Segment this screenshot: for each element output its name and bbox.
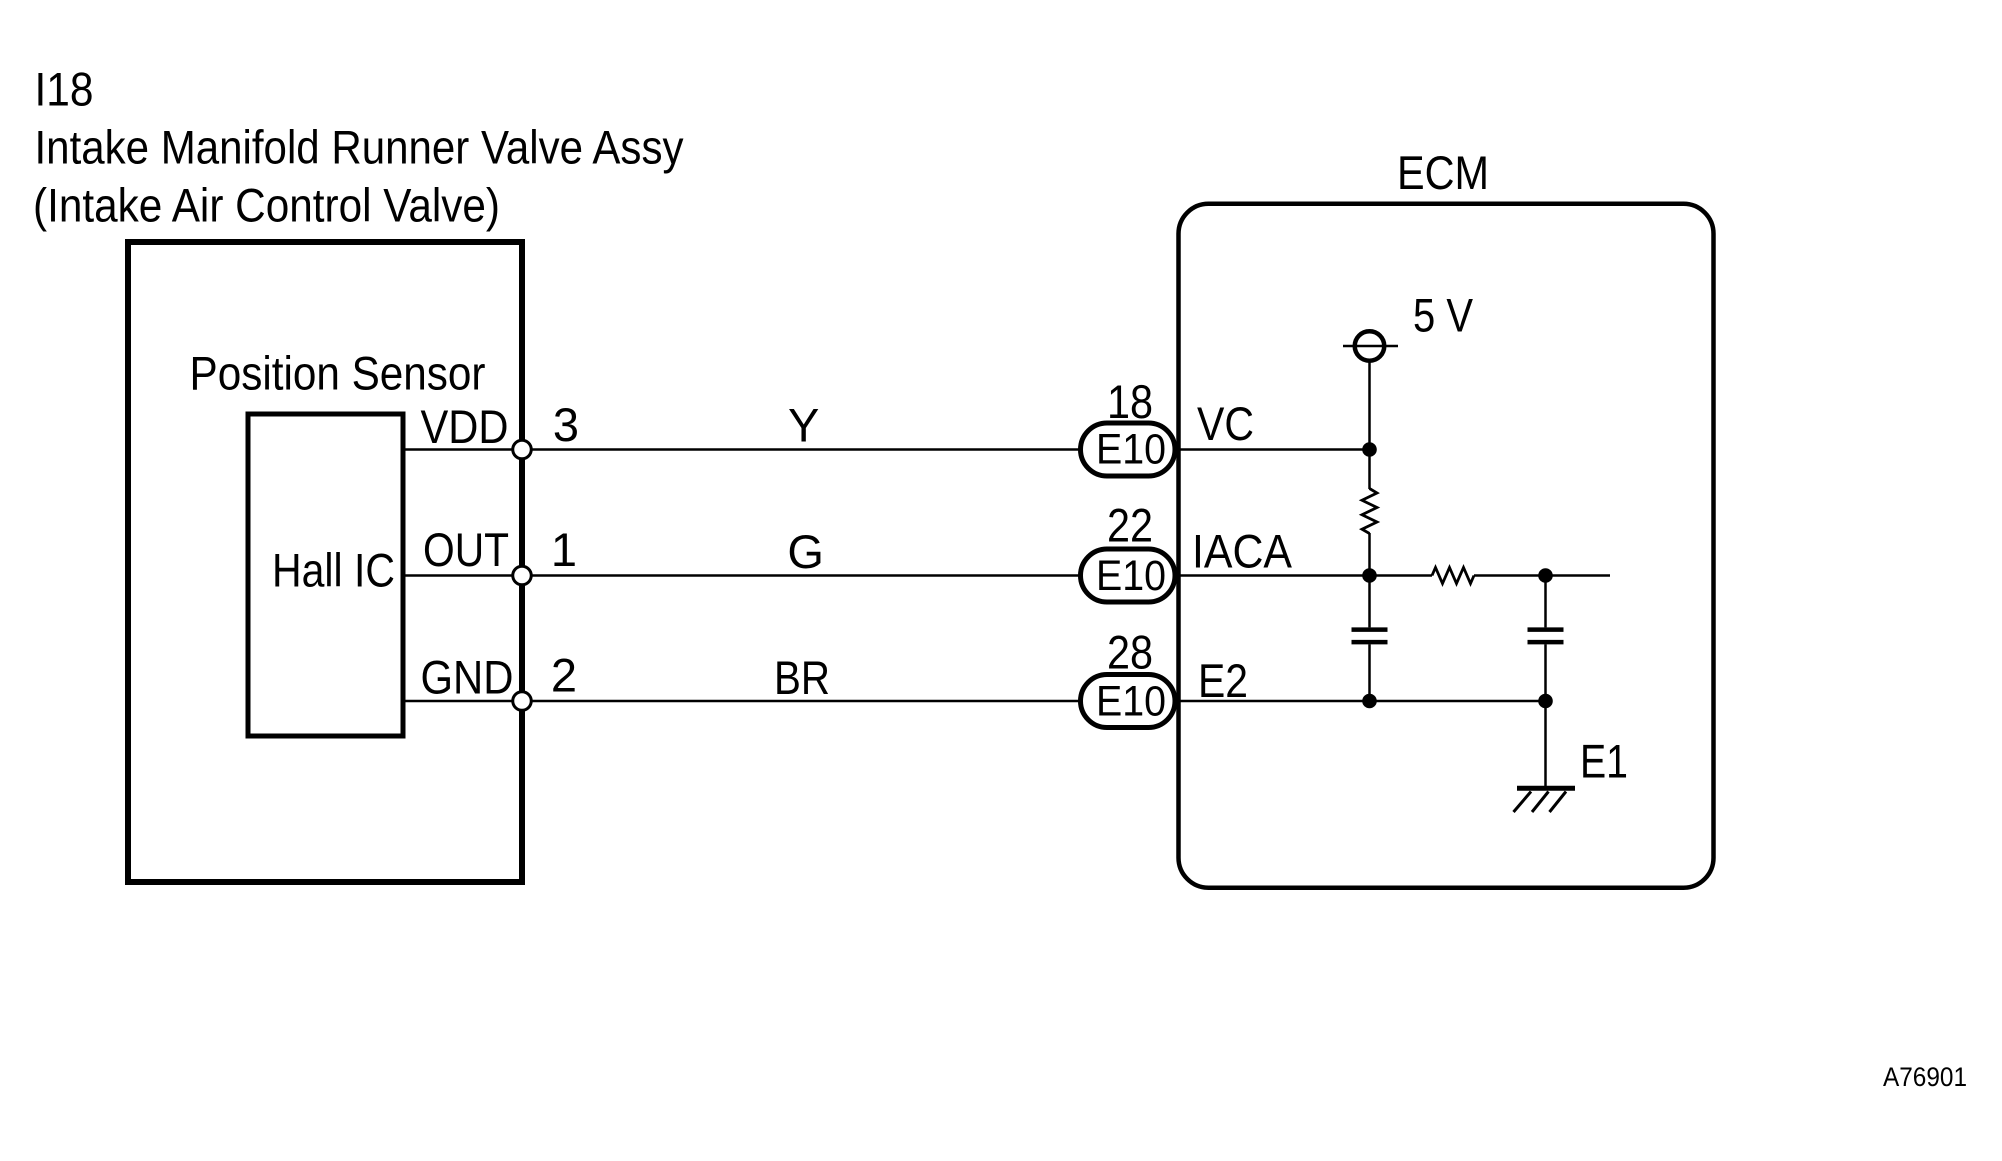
svg-text:18: 18 bbox=[1107, 375, 1153, 428]
ground symbol E1 bar bbox=[1517, 786, 1575, 791]
Hall IC box bbox=[248, 414, 403, 736]
connector oval E10 pin 28 bbox=[1081, 675, 1176, 728]
capacitor C2 plates bbox=[1528, 627, 1564, 632]
capacitor C2 top lead bbox=[1544, 576, 1547, 628]
junction E2 node right bbox=[1538, 694, 1553, 709]
svg-text:28: 28 bbox=[1107, 626, 1153, 679]
connector oval E10 pin 18 bbox=[1081, 423, 1176, 476]
resistor R2 (horizontal) bbox=[1432, 568, 1474, 584]
terminal circle pin 2 bbox=[513, 692, 532, 711]
power symbol 5V circle bbox=[1355, 331, 1385, 361]
wire E2 inside ECM bbox=[1178, 700, 1546, 703]
svg-text:E1: E1 bbox=[1580, 735, 1628, 788]
svg-text:GND: GND bbox=[421, 651, 514, 704]
svg-text:Position Sensor: Position Sensor bbox=[190, 347, 486, 400]
junction E2 node left bbox=[1362, 694, 1377, 709]
junction IACA node left bbox=[1362, 568, 1377, 583]
ECM box bbox=[1179, 204, 1714, 888]
wire IACA inside ECM (left of resistor) bbox=[1178, 574, 1432, 577]
capacitor C1 bottom lead bbox=[1368, 644, 1371, 701]
wire resistor R1 to IACA junction bbox=[1368, 533, 1371, 576]
wire BR (GND to E10-28) bbox=[405, 700, 1079, 703]
capacitor C1 plates bbox=[1352, 627, 1388, 632]
power symbol 5V bar bbox=[1343, 345, 1398, 348]
wire ground stem bbox=[1544, 701, 1547, 786]
resistor R1 (vertical) bbox=[1362, 489, 1377, 534]
svg-text:OUT: OUT bbox=[423, 523, 509, 576]
svg-text:2: 2 bbox=[551, 649, 577, 702]
capacitor C2 bottom lead bbox=[1544, 644, 1547, 701]
svg-text:G: G bbox=[787, 525, 824, 578]
svg-text:Intake Manifold Runner Valve A: Intake Manifold Runner Valve Assy bbox=[35, 121, 684, 174]
wire 5V stem bbox=[1368, 361, 1371, 450]
svg-text:1: 1 bbox=[551, 523, 577, 576]
svg-text:(Intake Air Control Valve): (Intake Air Control Valve) bbox=[33, 179, 500, 232]
svg-text:I18: I18 bbox=[35, 63, 94, 116]
capacitor C1 top lead bbox=[1368, 576, 1371, 628]
svg-text:E10: E10 bbox=[1096, 426, 1166, 474]
svg-text:22: 22 bbox=[1107, 499, 1153, 552]
svg-text:E2: E2 bbox=[1198, 654, 1248, 707]
terminal circle pin 1 bbox=[513, 566, 532, 585]
svg-text:3: 3 bbox=[553, 398, 579, 451]
wire G (OUT to E10-22) bbox=[405, 574, 1079, 577]
svg-text:A76901: A76901 bbox=[1883, 1062, 1967, 1092]
svg-text:IACA: IACA bbox=[1192, 525, 1293, 578]
wire Y (VDD to E10-18) bbox=[405, 448, 1079, 451]
svg-text:Y: Y bbox=[788, 399, 819, 452]
svg-text:BR: BR bbox=[774, 651, 830, 704]
svg-text:ECM: ECM bbox=[1397, 146, 1489, 199]
junction VC node bbox=[1362, 442, 1377, 457]
wire VC inside ECM bbox=[1178, 448, 1370, 451]
svg-text:VC: VC bbox=[1197, 397, 1254, 450]
terminal circle pin 3 bbox=[513, 440, 532, 459]
ground symbol hatch strokes bbox=[1514, 792, 1532, 813]
connector oval E10 pin 22 bbox=[1081, 549, 1176, 602]
svg-text:E10: E10 bbox=[1096, 552, 1166, 600]
svg-text:Hall IC: Hall IC bbox=[272, 544, 395, 597]
wire IACA inside ECM (right of resistor) bbox=[1474, 574, 1610, 577]
junction IACA node right bbox=[1538, 568, 1553, 583]
svg-text:E10: E10 bbox=[1096, 678, 1166, 726]
svg-text:5 V: 5 V bbox=[1413, 289, 1474, 342]
wire VC junction to resistor R1 bbox=[1368, 450, 1371, 490]
svg-text:VDD: VDD bbox=[421, 400, 509, 453]
connector I18 sensor assembly box bbox=[128, 242, 522, 882]
